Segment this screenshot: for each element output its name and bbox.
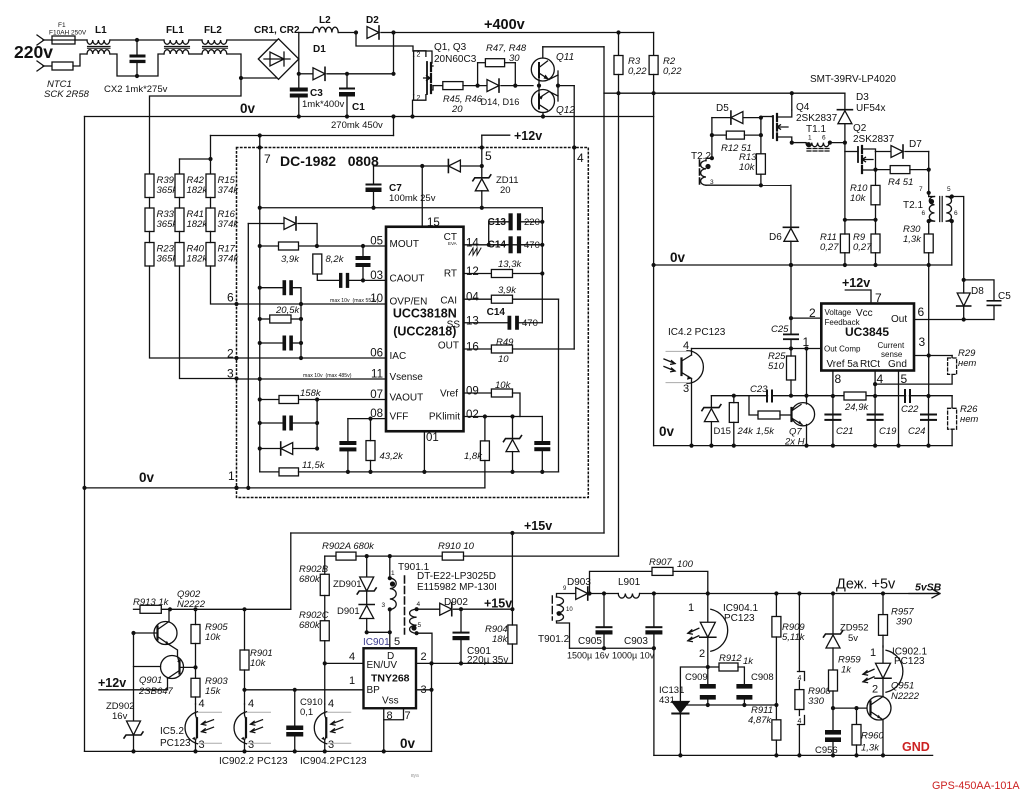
svg-text:C909: C909 xyxy=(685,672,708,683)
svg-text:sense: sense xyxy=(881,350,903,359)
svg-text:20: 20 xyxy=(451,104,463,115)
svg-text:0,22: 0,22 xyxy=(663,66,682,77)
svg-text:0v: 0v xyxy=(139,470,155,485)
wire T1.1 row left xyxy=(792,142,806,144)
capacitor C956 xyxy=(825,730,841,742)
svg-text:Feedback: Feedback xyxy=(825,318,861,327)
junction T901 pin4 xyxy=(415,607,419,611)
transistor Q2 arrow xyxy=(862,157,873,161)
wire D15 top xyxy=(710,396,712,408)
svg-text:max 10v (max 557v): max 10v (max 557v) xyxy=(330,298,379,304)
resistor 3,9k MOUT xyxy=(279,242,299,250)
svg-text:8: 8 xyxy=(835,372,842,386)
transistor Q902 internals xyxy=(158,622,170,645)
svg-text:18k: 18k xyxy=(492,634,509,645)
junction pin7 row xyxy=(258,206,262,210)
svg-text:220v: 220v xyxy=(14,42,53,62)
wire Out row xyxy=(914,319,994,321)
junction T2.2 top xyxy=(710,156,714,160)
capacitor C910 xyxy=(286,726,303,737)
wire 11,5k row xyxy=(260,471,279,473)
transformer T2.2 core xyxy=(699,160,701,184)
wire T1.1 right xyxy=(829,142,845,144)
junction CX2 top xyxy=(135,38,139,42)
wire ovp cap1 right xyxy=(293,288,301,358)
inductor L1 core lines xyxy=(88,46,111,48)
svg-text:+12v: +12v xyxy=(98,676,126,690)
svg-text:EN/UV: EN/UV xyxy=(367,660,398,671)
wire pin2 row xyxy=(791,317,821,319)
wire pin4 vertical xyxy=(874,371,876,446)
svg-text:3: 3 xyxy=(199,739,205,751)
junction Vsense pin7 cross xyxy=(258,377,262,381)
wire 43,2k bottom xyxy=(370,461,372,472)
junction C910 rail xyxy=(293,749,297,753)
winding start T2.2 xyxy=(705,164,710,169)
svg-text:нет: нет xyxy=(960,414,978,425)
transistor Q12 internals xyxy=(539,92,549,111)
wire R42 top link xyxy=(180,158,211,160)
svg-text:+400v: +400v xyxy=(484,17,525,33)
wire +15v rail xyxy=(291,532,604,534)
wire pin4 to D902 xyxy=(417,608,440,610)
svg-text:10k: 10k xyxy=(250,658,267,669)
svg-text:1mk*400v: 1mk*400v xyxy=(302,99,344,110)
junction D8 top xyxy=(962,278,966,282)
wire D7 to R4 right xyxy=(928,152,930,170)
svg-text:C23: C23 xyxy=(750,384,768,395)
svg-text:4: 4 xyxy=(417,601,421,608)
wire Q1 drain stub xyxy=(431,65,433,67)
junction rail 691.5 xyxy=(689,444,693,448)
junction R957 rail xyxy=(881,591,885,595)
wire CAI drop xyxy=(558,299,560,472)
wire R4 row left xyxy=(876,169,891,171)
junction R3 bottom xyxy=(616,91,620,95)
wire C13 branch xyxy=(489,222,509,245)
svg-text:PC123: PC123 xyxy=(724,613,755,624)
junction 0v left xyxy=(82,486,86,490)
junction C3 bottom xyxy=(297,114,301,118)
wire ZD11 bottom xyxy=(481,191,483,208)
junction 1,8k top xyxy=(483,414,487,418)
svg-text:Q951: Q951 xyxy=(891,681,914,692)
wire Q1 to R45 xyxy=(433,85,443,87)
wire R902B-C link xyxy=(324,596,326,621)
wire pk cap stub xyxy=(541,417,543,442)
wire R911 top stub xyxy=(775,705,777,720)
op-amp U2 UC3845 box xyxy=(821,304,914,371)
svg-text:16v: 16v xyxy=(112,711,128,722)
resistor R912 xyxy=(719,663,738,671)
wire Q4 source link xyxy=(777,137,792,143)
wire uc ground rail xyxy=(654,445,953,447)
svg-text:6: 6 xyxy=(227,291,234,305)
svg-text:OUT: OUT xyxy=(438,341,459,352)
wire R25 bottom stub xyxy=(790,380,792,396)
wire R960 bottom xyxy=(856,745,858,755)
junction C1 top xyxy=(345,72,349,76)
svg-text:PC123: PC123 xyxy=(257,756,288,767)
resistor R45 R46 xyxy=(443,82,463,90)
junction RT right xyxy=(540,271,544,275)
transformer T2.2 winding xyxy=(701,161,706,186)
svg-text:2: 2 xyxy=(699,648,705,660)
wire va diode right xyxy=(294,448,317,450)
wire gate bleed row xyxy=(845,219,876,221)
wire standby ground rail xyxy=(85,750,432,752)
svg-text:R907: R907 xyxy=(649,557,672,568)
wire spur to 0v row xyxy=(393,117,395,136)
svg-text:D903: D903 xyxy=(567,577,591,588)
svg-text:C956: C956 xyxy=(815,745,838,756)
optocoupler IC902.2 led leads xyxy=(248,712,271,743)
capacitor C3 xyxy=(290,88,308,98)
svg-text:10: 10 xyxy=(566,607,573,613)
wire IC902.1 anode xyxy=(882,646,884,663)
transistor Q12 base bar xyxy=(538,95,540,109)
svg-text:7: 7 xyxy=(875,291,882,305)
wire startup row xyxy=(325,555,336,557)
capacitor C22 gap xyxy=(906,390,909,402)
wire D6 top xyxy=(790,185,792,227)
svg-text:VFF: VFF xyxy=(390,412,409,423)
svg-text:вуа: вуа xyxy=(411,773,419,779)
resistor 24,9k xyxy=(844,392,866,400)
svg-text:+15v: +15v xyxy=(524,519,552,533)
wire Q902 base xyxy=(134,632,158,634)
wire FL1-FL2 top xyxy=(190,39,203,41)
transistor Q11 emitter arrow xyxy=(544,75,550,80)
resistor R41 xyxy=(175,208,184,232)
junction ZD952 rail xyxy=(831,591,835,595)
junction R908 rail top xyxy=(797,591,801,595)
svg-text:D6: D6 xyxy=(769,232,782,243)
transistor Q951 base bar xyxy=(869,702,871,715)
svg-text:R45, R46: R45, R46 xyxy=(443,94,483,104)
wire EN row xyxy=(325,662,364,664)
wire R909 top xyxy=(775,594,777,617)
junction Q7 collector comp xyxy=(804,394,808,398)
inductor L1 bottom winding xyxy=(87,50,110,54)
junction pin2 gnd xyxy=(429,661,433,665)
resistor R11 xyxy=(840,234,849,253)
svg-text:BP: BP xyxy=(367,685,381,696)
wire AC bottom to NTC1 xyxy=(43,65,52,67)
junction ZD901 top xyxy=(365,554,369,558)
wire R29 return row xyxy=(875,374,952,384)
junction R47 right xyxy=(513,84,517,88)
resistor R904 xyxy=(508,625,517,644)
wire T901 primary top xyxy=(389,556,391,578)
svg-text:C14: C14 xyxy=(487,307,506,318)
capacitor C25 xyxy=(783,334,799,341)
wire D3 bottom xyxy=(844,124,846,143)
AC input arrow top xyxy=(37,35,44,45)
wire C25 from 0v xyxy=(790,265,792,334)
wire R908 column top xyxy=(798,594,800,672)
junction spur 0v xyxy=(391,114,395,118)
svg-text:C25: C25 xyxy=(771,324,789,335)
wire 5v rail xyxy=(654,593,936,595)
wire C901 bottom xyxy=(460,640,462,663)
wire R12 right xyxy=(744,134,761,136)
wire string link R39-R33 xyxy=(149,198,151,209)
zener ZD11 xyxy=(475,179,488,191)
junction R4 right xyxy=(927,168,931,172)
wire 20,5k right xyxy=(291,318,301,320)
junction C905 bottom xyxy=(602,646,606,650)
resistor R29 not installed xyxy=(948,358,957,374)
LED IC902.1 xyxy=(876,663,891,678)
svg-text:1: 1 xyxy=(349,675,355,687)
svg-text:R912: R912 xyxy=(719,653,742,664)
wire SS right xyxy=(519,322,542,324)
resistor R15 xyxy=(206,174,215,198)
transistor Q2 channel xyxy=(861,146,863,173)
resistor R30 xyxy=(924,234,933,253)
wire diode to pin5 node xyxy=(461,165,481,167)
transistor Q1 gate bar xyxy=(426,62,428,94)
optocoupler IC4.2 arc xyxy=(687,351,703,384)
resistor R905 xyxy=(191,625,200,644)
svg-text:UF54x: UF54x xyxy=(856,103,885,114)
wire string link R15-R16 xyxy=(210,198,212,209)
capacitor C19 xyxy=(867,414,884,421)
svg-text:T901.2: T901.2 xyxy=(538,634,570,645)
capacitor C909 xyxy=(700,684,716,700)
optocoupler IC904.2 arc xyxy=(314,712,326,744)
junction ovp cap1 left xyxy=(258,286,262,290)
svg-text:182k: 182k xyxy=(187,219,209,230)
svg-text:D902: D902 xyxy=(444,597,468,608)
wire R47 right vertical xyxy=(514,63,516,86)
optocoupler IC904.2 transistor xyxy=(325,704,327,751)
junction ZD11 bottom xyxy=(480,206,484,210)
wire C909 stub xyxy=(707,667,709,684)
wire R10 top xyxy=(875,170,877,186)
winding start T1.1 xyxy=(806,142,811,147)
wire T901 pin5 to gnd xyxy=(417,633,432,663)
wire GND rail xyxy=(654,754,933,756)
junction R911 rail xyxy=(774,753,778,757)
wire sense row xyxy=(604,92,845,94)
svg-text:+12v: +12v xyxy=(514,129,542,143)
wire bus to L2 xyxy=(299,32,313,34)
wire C903 stub xyxy=(653,594,655,627)
svg-text:Current: Current xyxy=(878,341,905,350)
optocoupler IC5.2 light arrows xyxy=(202,720,214,733)
capacitor C908 xyxy=(736,684,752,700)
zener ZD901 xyxy=(360,577,374,591)
wire Vss to rail xyxy=(383,720,385,752)
resistor R909 xyxy=(772,617,781,638)
capacitor C22 xyxy=(904,389,911,403)
wire R30 bottom xyxy=(928,253,930,265)
svg-text:PC123: PC123 xyxy=(336,756,367,767)
diode VAOUT block xyxy=(281,443,293,455)
connector tag 4 lower xyxy=(798,716,805,725)
wire ZD902 bottom xyxy=(133,735,135,751)
wire zener bottom xyxy=(512,452,514,472)
svg-text:L901: L901 xyxy=(618,577,641,588)
sawtooth CT symbol xyxy=(469,248,481,255)
wire C905 bottom xyxy=(603,635,605,649)
wire R45 to D14 xyxy=(463,85,487,87)
svg-text:6: 6 xyxy=(918,305,925,319)
svg-text:100: 100 xyxy=(677,559,694,570)
transistor Q1 arrow xyxy=(424,76,430,81)
wire C24 link xyxy=(928,396,930,446)
resistor 1,5k xyxy=(758,411,780,419)
wire D7 row xyxy=(876,151,892,153)
resistor R2 xyxy=(649,56,658,75)
wire string link R16-R17 xyxy=(210,232,212,243)
wire R912 row xyxy=(708,666,719,668)
transformer T901.2 xyxy=(557,597,564,621)
junction T901 pin3 xyxy=(388,607,392,611)
wire IAC row xyxy=(237,357,387,359)
svg-text:1: 1 xyxy=(870,647,876,659)
thermistor NTC1 xyxy=(52,62,73,70)
wire bus end to R2 xyxy=(653,33,655,56)
svg-text:1000µ 10v: 1000µ 10v xyxy=(612,651,655,661)
svg-text:5: 5 xyxy=(418,622,422,629)
svg-text:IC901: IC901 xyxy=(363,637,390,648)
junction va diode right xyxy=(315,446,319,450)
junction R9 bottom xyxy=(873,263,877,267)
svg-text:Vref: Vref xyxy=(440,389,458,400)
wire left frame vertical xyxy=(84,117,86,752)
wire CX2 to FL1 bottom xyxy=(137,54,164,76)
junction T2.1 pin7 xyxy=(927,191,931,195)
svg-text:7: 7 xyxy=(264,152,271,166)
svg-text:D14, D16: D14, D16 xyxy=(481,97,520,107)
wire 1,5k to Q7 base xyxy=(780,414,792,416)
resistor R42 xyxy=(175,174,184,198)
wire Q11 emitter xyxy=(549,75,558,80)
svg-text:4,87k: 4,87k xyxy=(748,715,772,726)
wire R10 bottom xyxy=(875,205,877,234)
capacitor OVP lower xyxy=(283,336,293,351)
inductor FL1 bottom winding xyxy=(164,50,189,54)
wire C1 top stub xyxy=(346,74,348,88)
junction pin2 C25 xyxy=(789,316,793,320)
wire comp to base xyxy=(749,396,758,415)
wire T2.1 sec top xyxy=(952,197,964,280)
svg-text:10k: 10k xyxy=(205,632,222,643)
resistor R3 xyxy=(614,56,623,75)
wire R47 row left xyxy=(478,62,486,64)
diode D3 xyxy=(838,111,852,124)
wire R47 left vertical xyxy=(477,63,479,86)
svg-text:2: 2 xyxy=(421,651,427,663)
junction Q1 source 0v xyxy=(410,114,414,118)
capacitor VFF xyxy=(339,441,356,451)
wire current sense to C24 node xyxy=(928,356,930,397)
junction emitters xyxy=(556,84,560,88)
resistor R39 xyxy=(145,174,154,198)
wire C901 stub xyxy=(460,609,462,631)
inductor FL1 top winding xyxy=(164,40,189,44)
wire D2 anode to Q1 drain xyxy=(356,33,413,52)
inductor FL2 bottom winding xyxy=(202,50,227,54)
junction IC131 rail xyxy=(678,753,682,757)
wire VFF cap bottom xyxy=(347,451,349,472)
svg-text:270mk 450v: 270mk 450v xyxy=(331,120,383,131)
wire MOUT cap stub bottom xyxy=(362,267,364,280)
svg-text:IAC: IAC xyxy=(390,351,407,362)
svg-text:1: 1 xyxy=(808,135,812,142)
junction R11 top xyxy=(843,218,847,222)
wire emitter join xyxy=(557,71,559,101)
wire 158k row xyxy=(260,399,386,401)
wire D5 row left xyxy=(712,117,731,119)
capacitor C14a xyxy=(509,236,522,253)
wire ZD952 to R959 xyxy=(832,648,834,670)
wire 43,2k top xyxy=(370,419,372,441)
wire R23 to pin2 xyxy=(150,266,237,358)
diode D901 xyxy=(360,606,374,619)
svg-text:374k: 374k xyxy=(218,219,240,230)
optocoupler IC4.2 light arrows xyxy=(664,359,675,372)
wire R901 top stub xyxy=(244,609,246,650)
junction bus drop at C1 row xyxy=(391,72,395,76)
wire D3 top xyxy=(844,93,846,110)
junction Q951 rail xyxy=(881,753,885,757)
junction D5 gate node xyxy=(759,116,763,120)
svg-text:43,2k: 43,2k xyxy=(380,451,404,462)
junction C7 bottom xyxy=(371,206,375,210)
resistor 10k Vref xyxy=(491,389,512,397)
junction zener bottom xyxy=(510,470,514,474)
wire R30 top xyxy=(928,221,930,234)
capacitor C24 xyxy=(920,414,937,421)
resistor R33 xyxy=(145,208,154,232)
wire gnd riser xyxy=(431,663,433,751)
wire 24k top xyxy=(733,396,735,403)
junction C901 bottom xyxy=(459,661,463,665)
svg-text:C13: C13 xyxy=(488,217,507,228)
wire R3 bottom xyxy=(618,75,620,94)
svg-text:C14: C14 xyxy=(488,240,507,251)
svg-text:ZD952: ZD952 xyxy=(840,623,869,634)
junction 0v mid drop xyxy=(652,263,656,267)
svg-text:N2222: N2222 xyxy=(891,691,920,702)
wire Q11 collector xyxy=(542,47,544,58)
junction va diode left xyxy=(258,446,262,450)
wire 0v primary row xyxy=(85,116,654,118)
junction D903 node xyxy=(587,591,591,595)
wire ZD952 top xyxy=(832,594,834,635)
wire C3 bottom stub xyxy=(298,98,300,117)
junction riser D902 row xyxy=(510,607,514,611)
junction R3 top xyxy=(616,30,620,34)
transformer T901.1 primary xyxy=(390,578,396,609)
junction C903 bottom row xyxy=(652,646,656,650)
junction R11 bottom xyxy=(843,263,847,267)
resistor R10 xyxy=(871,185,880,204)
junction ZD902 rail xyxy=(131,749,135,753)
capacitor CX2 xyxy=(130,55,146,64)
capacitor C1 xyxy=(339,88,355,97)
junction Q7 collector pin1 xyxy=(804,346,808,350)
wire T2.1 feed xyxy=(928,170,930,197)
junction MOUT left xyxy=(258,244,262,248)
svg-text:IC4.2 PC123: IC4.2 PC123 xyxy=(668,327,726,338)
wire CX2 top stub xyxy=(136,40,138,55)
wire D5 row right xyxy=(744,117,761,119)
